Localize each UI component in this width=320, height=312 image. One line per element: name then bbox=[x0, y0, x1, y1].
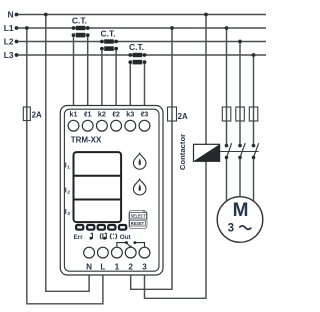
svg-text:L1: L1 bbox=[4, 23, 14, 33]
svg-text:C.T.: C.T. bbox=[129, 42, 144, 52]
svg-text:ℓ3: ℓ3 bbox=[141, 110, 149, 119]
svg-text:3: 3 bbox=[228, 222, 234, 234]
svg-text:Contactor: Contactor bbox=[178, 134, 187, 170]
svg-text:RESET: RESET bbox=[131, 221, 145, 226]
svg-text:C.T.: C.T. bbox=[72, 16, 87, 26]
svg-text:M: M bbox=[233, 200, 249, 221]
svg-text:2: 2 bbox=[67, 190, 70, 196]
svg-text:3: 3 bbox=[67, 211, 70, 217]
svg-text:ℓ2: ℓ2 bbox=[112, 110, 120, 119]
svg-text:C.T.: C.T. bbox=[100, 29, 115, 39]
svg-text:2A: 2A bbox=[32, 110, 42, 119]
svg-text:1: 1 bbox=[115, 262, 120, 271]
svg-text:k3: k3 bbox=[126, 110, 134, 119]
svg-text:2A: 2A bbox=[178, 112, 188, 121]
svg-text:k1: k1 bbox=[70, 110, 78, 119]
svg-text:ℓ1: ℓ1 bbox=[84, 110, 92, 119]
svg-text:N: N bbox=[7, 10, 13, 20]
svg-text:1: 1 bbox=[67, 165, 70, 171]
svg-text:L3: L3 bbox=[4, 50, 14, 60]
svg-text:2: 2 bbox=[128, 262, 133, 271]
svg-text:L: L bbox=[100, 262, 105, 271]
svg-text:N: N bbox=[86, 263, 92, 272]
svg-text:3: 3 bbox=[142, 262, 147, 271]
svg-text:k2: k2 bbox=[98, 110, 106, 119]
svg-text:SELECT: SELECT bbox=[131, 214, 146, 219]
svg-text:Out: Out bbox=[120, 234, 132, 241]
svg-text:Err: Err bbox=[74, 234, 84, 241]
svg-text:L2: L2 bbox=[4, 37, 14, 47]
svg-text:TRM-XX: TRM-XX bbox=[71, 135, 102, 144]
